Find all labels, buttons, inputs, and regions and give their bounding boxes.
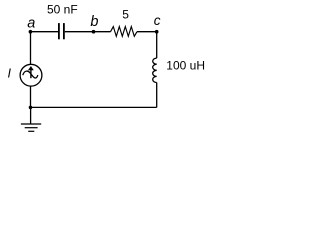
current source I (circle) (20, 64, 42, 86)
node b (dot) (92, 30, 96, 34)
svg-text:I: I (8, 67, 12, 81)
svg-text:100 uH: 100 uH (166, 59, 205, 73)
inductor L1 100 uH (coil) (153, 58, 157, 82)
svg-text:c: c (154, 13, 161, 28)
node a (dot) (29, 30, 33, 34)
svg-text:50 nF: 50 nF (47, 3, 78, 17)
svg-text:a: a (27, 16, 35, 32)
wire: source bottom to junction (30, 86, 32, 107)
wire: right branch top (node c down to inductor) (156, 32, 158, 58)
capacitor C1 50 nF (plates) (59, 23, 64, 39)
wire: capacitor to node b to resistor (65, 31, 111, 33)
ground (21, 107, 41, 131)
wire top-left: node a to capacitor (30, 31, 58, 33)
svg-text:b: b (90, 14, 98, 30)
resistor R 5 (zigzag) (111, 27, 138, 37)
wire: bottom rail (30, 106, 156, 108)
node c (dot) (155, 30, 159, 34)
current source sine wave (23, 71, 38, 78)
wire: node a down to source (30, 32, 32, 64)
wire: resistor to node c (137, 31, 157, 33)
current source arrow (30, 69, 32, 78)
junction dot (ground node) (29, 106, 33, 110)
svg-text:5: 5 (122, 8, 129, 22)
wire: right branch bottom (156, 83, 158, 108)
